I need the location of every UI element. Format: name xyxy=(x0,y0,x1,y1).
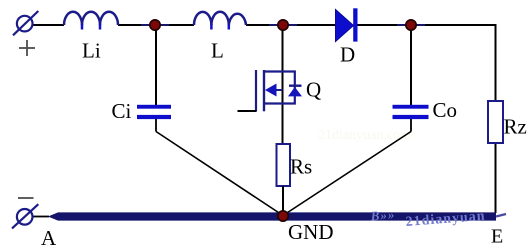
svg-text:Ci: Ci xyxy=(112,99,132,123)
svg-text:Q: Q xyxy=(306,78,321,102)
svg-text:B»»: B»» xyxy=(369,207,396,224)
svg-text:D: D xyxy=(340,43,355,67)
svg-text:L: L xyxy=(211,39,224,63)
svg-text:E: E xyxy=(491,226,503,248)
svg-text:Rs: Rs xyxy=(290,155,312,179)
svg-text:Co: Co xyxy=(433,98,458,122)
svg-text:A: A xyxy=(41,226,57,248)
svg-text:Rz: Rz xyxy=(504,115,527,139)
svg-text:Li: Li xyxy=(82,39,101,63)
svg-text:GND: GND xyxy=(288,220,334,244)
